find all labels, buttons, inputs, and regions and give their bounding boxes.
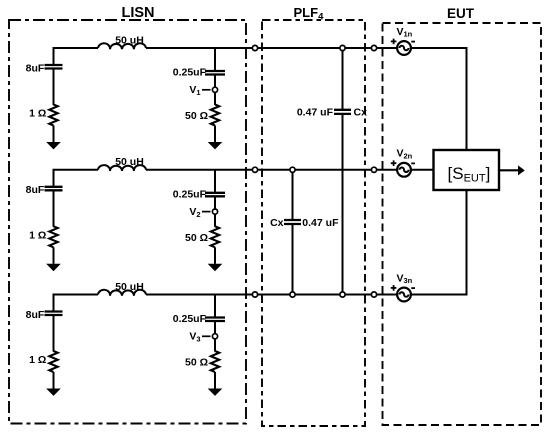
LISN box — [9, 20, 246, 424]
resistor 1 Ohm row2 — [49, 226, 57, 247]
capacitor 8uF row3 — [45, 295, 63, 352]
capacitor Cx 0.47uF upper — [334, 110, 351, 114]
svg-text:1 Ω: 1 Ω — [29, 229, 46, 241]
resistor 50 Ohm row2 — [211, 226, 219, 247]
node row3 Cx1 bottom — [340, 292, 345, 297]
svg-text:50 uH: 50 uH — [115, 281, 144, 293]
svg-text:0.25uF: 0.25uF — [173, 188, 207, 200]
svg-text:LISN: LISN — [121, 5, 154, 21]
svg-text:8uF: 8uF — [26, 184, 45, 196]
svg-text:Cx: Cx — [270, 217, 284, 229]
svg-text:Cx: Cx — [354, 106, 368, 118]
capacitor 0.25uF row1 — [205, 48, 225, 105]
wire Cx line 1-3 vertical — [342, 48, 344, 295]
output arrow — [499, 165, 525, 175]
EUT block SEUT — [434, 150, 500, 190]
label minus V3n — [411, 287, 415, 289]
resistor 50 Ohm row1 — [211, 105, 219, 126]
svg-text:50 uH: 50 uH — [115, 34, 144, 46]
source V2n — [397, 163, 411, 177]
node row1 Cx1 — [340, 45, 345, 50]
ground row1 right — [208, 126, 223, 150]
svg-text:1 Ω: 1 Ω — [29, 108, 46, 120]
capacitor 0.25uF row3 — [205, 295, 225, 352]
wire row1 LISN horizontal — [53, 47, 398, 49]
wire Cx line 2-3 vertical — [292, 170, 294, 295]
svg-text:8uF: 8uF — [26, 62, 45, 74]
wire V3 tap dash — [202, 335, 211, 337]
wire V2 tap dash — [202, 211, 211, 213]
capacitor Cx 0.47uF lower — [284, 220, 301, 224]
svg-text:0.25uF: 0.25uF — [173, 313, 207, 325]
node row1 LISN out — [252, 45, 257, 50]
svg-text:1 Ω: 1 Ω — [29, 354, 46, 366]
node V3 — [212, 334, 217, 339]
resistor 1 Ohm row1 — [49, 105, 57, 126]
inductor 50 uH row3 — [98, 290, 146, 296]
node row3 EUT in — [371, 292, 376, 297]
wire row3 EUT to SEUT — [411, 190, 467, 296]
inductor 50 uH row2 — [98, 165, 146, 171]
source V3n — [397, 288, 411, 302]
svg-text:0.25uF: 0.25uF — [173, 67, 207, 79]
resistor 50 Ohm row3 — [211, 351, 219, 372]
node row2 Cx2 — [290, 167, 295, 172]
svg-text:8uF: 8uF — [26, 309, 45, 321]
capacitor 8uF row2 — [45, 170, 63, 227]
label plus V3n — [391, 285, 397, 291]
resistor 1 Ohm row3 — [49, 351, 57, 372]
label plus V2n — [391, 160, 397, 166]
node V1 — [212, 87, 217, 92]
label minus V2n — [411, 162, 415, 164]
node row2 EUT in — [371, 167, 376, 172]
wire V1 tap dash — [202, 89, 211, 91]
svg-text:50 uH: 50 uH — [115, 156, 144, 168]
inductor 50 uH row1 — [98, 43, 146, 49]
wire row1 EUT to SEUT — [411, 47, 467, 150]
node row1 EUT in — [371, 45, 376, 50]
capacitor 8uF row1 — [45, 48, 63, 105]
wire row2 LISN horizontal — [53, 169, 398, 171]
svg-text:50 Ω: 50 Ω — [185, 110, 208, 122]
node row3 LISN out — [252, 292, 257, 297]
capacitor 0.25uF row2 — [205, 170, 225, 227]
ground row3 left — [46, 372, 61, 396]
ground row2 left — [46, 247, 61, 271]
svg-text:EUT: EUT — [447, 6, 475, 21]
ground row2 right — [208, 247, 223, 271]
svg-text:0.47 uF: 0.47 uF — [297, 106, 334, 118]
PLF4 box — [262, 20, 365, 426]
node V2 — [212, 209, 217, 214]
label minus V1n — [411, 41, 415, 43]
wire row2 EUT to SEUT — [411, 169, 434, 171]
ground row1 left — [46, 126, 61, 150]
EUT box — [383, 23, 542, 425]
ground row3 right — [208, 372, 223, 396]
label plus V1n — [391, 39, 397, 45]
node row3 Cx2 bottom — [290, 292, 295, 297]
svg-text:0.47 uF: 0.47 uF — [302, 217, 339, 229]
svg-text:50 Ω: 50 Ω — [185, 232, 208, 244]
node row2 LISN out — [252, 167, 257, 172]
svg-text:50 Ω: 50 Ω — [185, 357, 208, 369]
source V1n — [397, 41, 411, 55]
wire row3 LISN horizontal — [53, 294, 398, 296]
